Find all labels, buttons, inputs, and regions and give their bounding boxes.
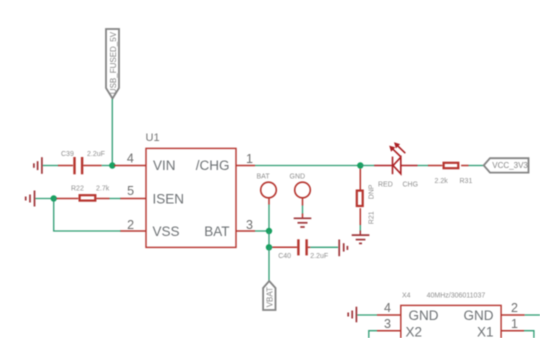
svg-text:GND: GND <box>290 173 306 180</box>
svg-text:4: 4 <box>384 301 391 315</box>
pin 5 ISEN stub <box>120 198 146 200</box>
ground (left of R22) <box>26 191 35 207</box>
svg-text:RED: RED <box>378 181 393 188</box>
junction node CHG <box>357 162 363 168</box>
svg-text:VIN: VIN <box>153 158 176 173</box>
pin 1 /CHG stub <box>236 165 255 167</box>
svg-text:DNP: DNP <box>369 184 376 199</box>
ground (left of X4 pin 4) <box>348 307 356 323</box>
svg-text:2.7k: 2.7k <box>96 186 110 193</box>
ground (right of C40) <box>339 240 347 257</box>
svg-text:3: 3 <box>384 317 391 331</box>
capacitor C40 2.2uF <box>273 239 329 259</box>
svg-text:USB_FUSED_5V: USB_FUSED_5V <box>109 31 118 94</box>
wire ground to node <box>35 198 53 200</box>
resistor R22 2.7k <box>57 186 110 201</box>
junction node VBAT/C40 <box>266 244 272 250</box>
svg-text:CHG: CHG <box>403 181 419 188</box>
svg-text:BAT: BAT <box>204 224 229 239</box>
crystal X4 box <box>401 305 501 338</box>
svg-text:2.2uF: 2.2uF <box>310 253 328 260</box>
svg-text:VCC_3V3: VCC_3V3 <box>492 161 528 170</box>
svg-text:/CHG: /CHG <box>196 158 230 173</box>
svg-text:R21: R21 <box>369 211 376 224</box>
svg-text:2.2k: 2.2k <box>435 178 449 185</box>
wire node to VBAT flag <box>268 247 270 280</box>
svg-text:X2: X2 <box>406 325 423 338</box>
pin 3 X2 stub <box>377 330 401 332</box>
resistor R31 2.2k <box>428 163 472 185</box>
supply flag USB_FUSED_5V <box>106 29 119 99</box>
junction node ISEN/VSS <box>51 195 57 201</box>
wire ground to X4 pin 4 <box>357 314 377 316</box>
wire /CHG to LED junction <box>255 165 360 167</box>
svg-text:VSS: VSS <box>153 224 180 239</box>
svg-text:R22: R22 <box>71 186 84 193</box>
arrow 1 <box>392 148 401 157</box>
svg-text:2: 2 <box>127 218 134 232</box>
wire node to C40 <box>269 246 274 248</box>
svg-text:R31: R31 <box>460 178 473 185</box>
wire C39 to junction <box>102 165 112 167</box>
wire BAT testpoint down <box>268 198 270 205</box>
pin 4 GND stub (X4) <box>377 314 401 316</box>
pin 2 VSS stub <box>120 230 146 232</box>
pin 3 BAT stub <box>236 230 255 232</box>
arrow 2 <box>396 145 405 154</box>
wire node to R22 <box>54 198 58 200</box>
svg-text:4: 4 <box>127 152 134 166</box>
wire USB_FUSED_5V to junction <box>111 99 113 166</box>
supply flag VCC_3V3 <box>484 158 529 172</box>
svg-text:3: 3 <box>246 218 253 232</box>
wire pin3 node down <box>268 231 270 247</box>
svg-text:GND: GND <box>409 308 439 323</box>
wire X4 pin 3 down <box>369 331 377 338</box>
wire ground to C39 <box>43 165 59 167</box>
junction node VIN <box>109 162 115 168</box>
svg-text:2.2uF: 2.2uF <box>87 151 105 158</box>
svg-text:40MHz/306011037: 40MHz/306011037 <box>427 292 486 299</box>
ground (under R21) <box>352 235 370 243</box>
pin 4 VIN stub <box>114 165 146 167</box>
svg-text:VBAT: VBAT <box>265 287 274 307</box>
pin 1 X1 stub <box>501 330 524 332</box>
svg-text:BAT: BAT <box>257 173 271 180</box>
wire junction to LED <box>360 165 374 167</box>
resistor R21 DNP (vertical) <box>357 169 376 225</box>
supply flag VBAT <box>263 281 275 310</box>
svg-text:GND: GND <box>464 308 494 323</box>
wire LED to R31 <box>418 165 429 167</box>
ground (left of C39) <box>34 157 42 174</box>
capacitor C39 2.2uF <box>58 151 105 174</box>
wire R31 to VCC_3V3 <box>469 165 484 167</box>
wire GND testpoint down <box>302 198 304 206</box>
wire node to VSS pin 2 <box>54 199 121 232</box>
pin 2 GND stub (X4 right) <box>501 314 525 316</box>
wire R22 to pin 5 <box>110 198 121 200</box>
testpoint GND <box>295 182 311 198</box>
wire C40 to ground <box>310 246 338 248</box>
wire R21 to ground <box>359 225 361 231</box>
svg-text:2: 2 <box>511 301 518 315</box>
wire X4 pin 2 right <box>525 314 540 316</box>
wire X4 pin 1 down <box>524 331 534 338</box>
svg-text:5: 5 <box>127 184 134 198</box>
svg-text:ISEN: ISEN <box>153 191 185 206</box>
svg-text:X4: X4 <box>402 292 411 299</box>
op-amp U1 box <box>146 148 236 247</box>
svg-text:C40: C40 <box>278 253 291 260</box>
testpoint BAT <box>261 182 277 198</box>
svg-text:U1: U1 <box>146 132 160 144</box>
junction node BAT pin3 <box>266 228 272 234</box>
svg-text:1: 1 <box>246 152 253 166</box>
svg-text:X1: X1 <box>477 325 494 338</box>
svg-text:1: 1 <box>511 317 518 331</box>
LED RED CHG <box>374 142 417 174</box>
ground (under GND testpoint) <box>294 218 312 227</box>
svg-text:C39: C39 <box>61 151 74 158</box>
